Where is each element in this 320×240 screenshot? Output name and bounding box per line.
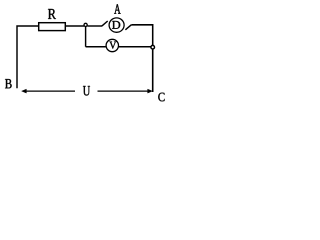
voltmeter V outline circle <box>106 39 118 51</box>
resistor R body <box>39 23 66 31</box>
wire: node to switch blade <box>87 25 102 27</box>
wire: right vertical below node down to C <box>152 49 154 92</box>
wire: top-right horizontal and corner down to right node <box>131 25 152 46</box>
wire: from left node down to voltmeter branch <box>85 27 87 47</box>
node: junction terminal circle right <box>151 45 155 49</box>
switch blade (open, left of lamp D) <box>102 21 108 26</box>
label R (resistor) <box>48 9 56 19</box>
wire: voltmeter branch right <box>119 46 151 48</box>
wire: resistor to junction node <box>65 25 84 27</box>
wire: voltmeter branch left <box>86 46 106 48</box>
dimension arrow right (points right toward C) <box>98 89 153 93</box>
label A (above lamp) <box>114 4 120 13</box>
label C (bottom-right terminal) <box>158 93 164 102</box>
node: junction terminal circle left <box>84 23 87 26</box>
lamp lead slash right <box>125 25 131 30</box>
label V (voltmeter letter) <box>109 42 116 49</box>
label D (lamp letter) <box>112 21 120 29</box>
wire: left vertical from top-left corner down to B <box>17 26 39 88</box>
label B (bottom-left terminal) <box>5 79 12 88</box>
label U (voltage dimension) <box>83 86 90 96</box>
lamp D outline circle <box>109 18 124 32</box>
dimension arrow left (points left toward B) <box>22 89 75 93</box>
